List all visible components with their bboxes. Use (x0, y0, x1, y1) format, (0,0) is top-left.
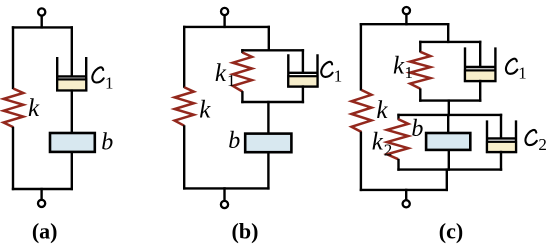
wire block to row2 bottom C (448, 149, 450, 171)
wire row2 top bar C (397, 114, 502, 116)
label c1 C (506, 59, 517, 74)
wire feed combo1 to row2 C (448, 99, 450, 116)
svg-text:(c): (c) (439, 219, 463, 244)
terminal top A (38, 8, 45, 28)
wire left lower C (360, 132, 362, 192)
wire damper C1C lower (479, 80, 481, 102)
svg-text:2: 2 (538, 135, 547, 154)
svg-text:k: k (28, 95, 40, 122)
block b C (426, 133, 470, 150)
terminal top B (221, 8, 228, 28)
wire combo1 top bar C (419, 41, 481, 43)
wire damper lower B (302, 85, 304, 103)
wire left branch B (183, 26, 185, 88)
svg-text:1: 1 (334, 67, 343, 86)
svg-text:1: 1 (518, 64, 527, 83)
wire k1 stub C (419, 41, 421, 53)
spring k (4, 89, 24, 128)
terminal top C (403, 7, 410, 25)
wire top bar C (360, 23, 450, 25)
block b B (245, 134, 291, 153)
wire feed to block B (267, 101, 269, 134)
wire bottom bar C (360, 189, 448, 191)
damper C2 piston plate (487, 137, 516, 139)
wire left lower A (12, 127, 14, 190)
damper C1 fluid (57, 79, 86, 90)
wire damper C2 rod (500, 114, 502, 139)
svg-text:1: 1 (227, 71, 236, 90)
wire damper rod B (302, 49, 304, 73)
svg-text:k: k (199, 97, 211, 124)
block b (50, 133, 95, 152)
svg-text:(a): (a) (32, 219, 58, 244)
wire bottom bar A (12, 188, 73, 190)
wire right feed C (447, 23, 449, 43)
spring k1 B (233, 53, 252, 92)
svg-text:b: b (411, 116, 423, 142)
svg-text:k: k (372, 129, 384, 156)
wire k1 lower stub B (241, 91, 243, 103)
wire combo top bar B (241, 49, 304, 51)
terminal bottom C (403, 189, 410, 208)
spring k C (352, 90, 372, 132)
damper C1B fluid (288, 76, 317, 86)
wire combo bottom bar B (241, 101, 304, 103)
svg-text:b: b (101, 129, 113, 155)
terminal bottom A (38, 188, 45, 207)
svg-text:(b): (b) (232, 219, 259, 244)
svg-text:1: 1 (105, 74, 114, 93)
wire left branch A (12, 26, 14, 89)
wire k2 stub C (397, 114, 399, 120)
spring k2 C (387, 119, 408, 159)
wire block to bottom A (71, 151, 73, 190)
wire block to bottom B (267, 151, 269, 189)
wire feed to block C (447, 115, 449, 134)
wire damper C1C rod (479, 41, 481, 68)
damper C1B cup (288, 54, 317, 86)
wire row2 bottom bar C (397, 168, 502, 170)
wire k1 lower stub C (419, 88, 421, 101)
label c2 (525, 130, 536, 145)
svg-text:k: k (376, 97, 388, 124)
damper C1 cup (57, 57, 86, 90)
damper C1 piston plate (57, 75, 86, 77)
svg-text:1: 1 (405, 63, 414, 82)
svg-text:k: k (393, 53, 405, 80)
wire damper to block A (71, 89, 73, 134)
wire bottom bar B (183, 187, 270, 189)
wire combo1 bottom bar C (419, 99, 481, 101)
wire top bar B (183, 26, 270, 28)
wire damper C2 lower (500, 151, 502, 171)
label c1 (92, 67, 103, 82)
svg-text:b: b (228, 128, 240, 154)
wire left lower B (183, 125, 185, 189)
wire left branch C (360, 23, 362, 91)
damper C2 fluid (487, 142, 516, 152)
wire top bar A (12, 26, 73, 28)
damper C1C piston plate (465, 66, 495, 68)
spring k1 C (410, 52, 430, 89)
label c1 B (321, 62, 332, 77)
damper C1C cup (465, 47, 495, 81)
wire damper rod A (71, 26, 73, 77)
wire feed row2 to bottom C (446, 168, 448, 191)
wire k2 lower stub C (397, 159, 399, 171)
svg-text:2: 2 (384, 141, 393, 160)
damper C1C fluid (465, 70, 495, 81)
spring k B (175, 87, 194, 126)
damper C2 cup (487, 120, 516, 152)
wire k1 stub B (241, 49, 243, 53)
damper C1B piston plate (288, 72, 317, 74)
terminal bottom B (221, 187, 228, 208)
svg-text:k: k (215, 60, 227, 87)
wire right feed B (268, 26, 270, 52)
